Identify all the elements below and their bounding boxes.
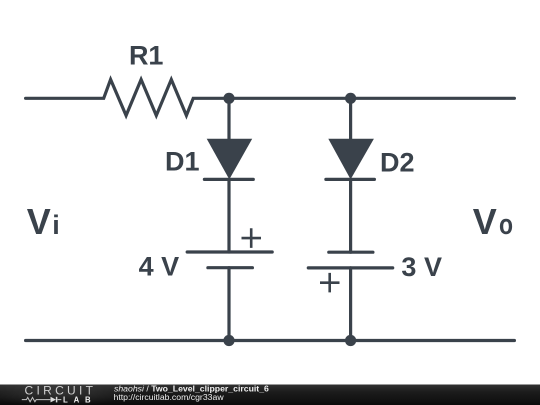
svg-text:D1: D1 — [165, 147, 200, 177]
svg-text:D2: D2 — [380, 148, 415, 178]
svg-text:o: o — [499, 207, 513, 240]
svg-text:i: i — [52, 210, 60, 240]
svg-text:V: V — [473, 201, 497, 242]
svg-text:3 V: 3 V — [401, 252, 442, 282]
svg-text:V: V — [27, 201, 51, 242]
svg-text:4 V: 4 V — [139, 252, 180, 282]
svg-text:http://circuitlab.com/cgr33aw: http://circuitlab.com/cgr33aw — [114, 392, 225, 402]
svg-text:R1: R1 — [129, 41, 164, 71]
svg-text:LAB: LAB — [63, 395, 96, 404]
